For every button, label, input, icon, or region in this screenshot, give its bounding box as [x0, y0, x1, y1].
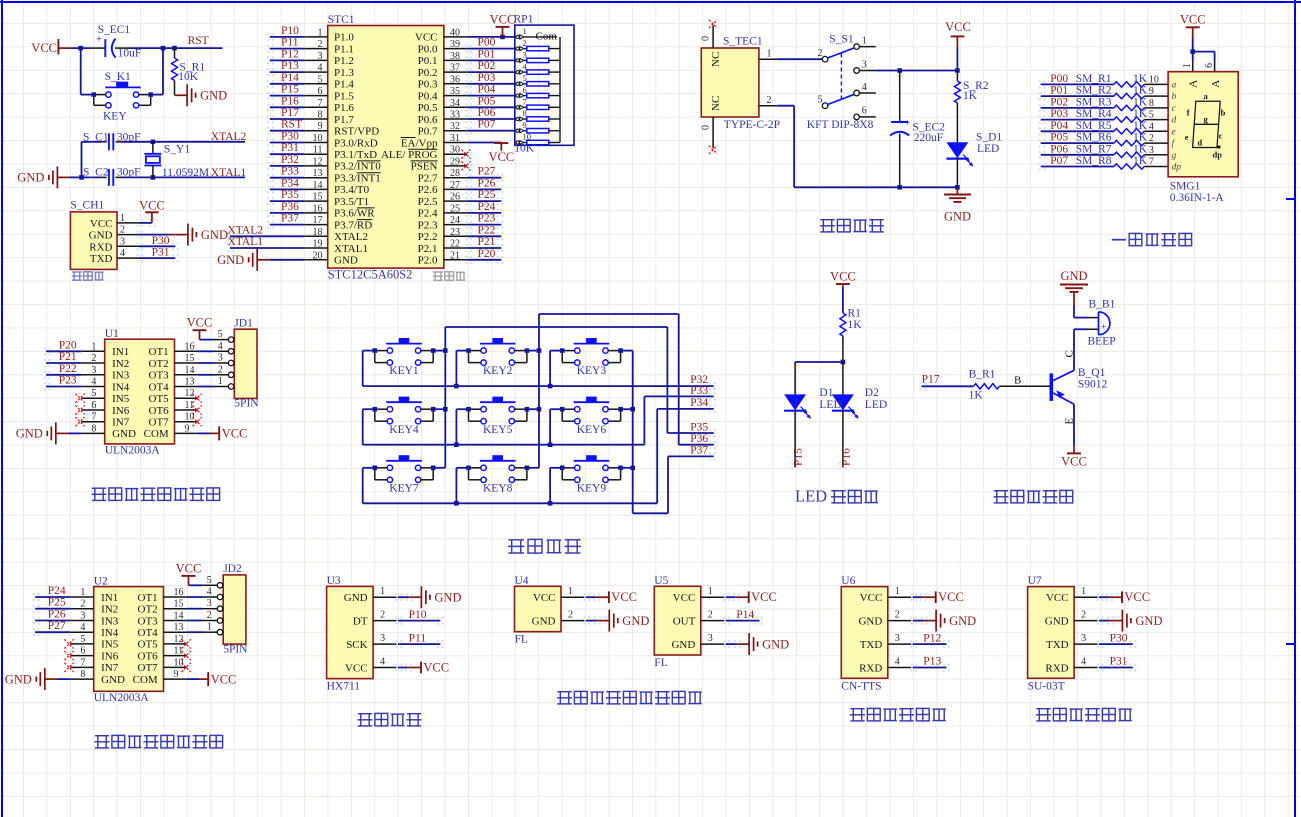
- svg-text:0.36IN-1-A: 0.36IN-1-A: [1170, 192, 1225, 204]
- svg-text:P2.5: P2.5: [418, 196, 438, 208]
- svg-text:5: 5: [318, 74, 323, 85]
- svg-text:dp: dp: [1213, 150, 1223, 160]
- svg-text:PSEN: PSEN: [411, 161, 438, 173]
- svg-text:3: 3: [91, 365, 96, 376]
- svg-text:OT5: OT5: [138, 639, 159, 651]
- svg-text:P0.5: P0.5: [418, 102, 438, 114]
- svg-text:29: 29: [450, 156, 460, 167]
- svg-text:2: 2: [120, 225, 125, 236]
- svg-text:d: d: [1172, 116, 1177, 126]
- svg-text:P07: P07: [478, 119, 496, 131]
- svg-text:VCC: VCC: [611, 590, 637, 604]
- svg-text:VCC: VCC: [31, 41, 57, 55]
- svg-text:VCC: VCC: [1124, 590, 1150, 604]
- svg-text:P35: P35: [281, 189, 299, 201]
- svg-text:21: 21: [450, 250, 460, 261]
- svg-text:P11: P11: [409, 632, 427, 644]
- svg-text:P20: P20: [59, 339, 77, 351]
- svg-text:P26: P26: [48, 609, 66, 621]
- svg-text:6: 6: [1204, 63, 1215, 68]
- svg-text:IN7: IN7: [101, 662, 119, 674]
- svg-text:SM_R8: SM_R8: [1076, 155, 1112, 167]
- svg-text:SM_R1: SM_R1: [1076, 73, 1112, 85]
- svg-text:28: 28: [450, 168, 460, 179]
- svg-text:P14: P14: [736, 609, 754, 621]
- svg-text:S_Y1: S_Y1: [164, 144, 190, 156]
- svg-text:P24: P24: [48, 585, 66, 597]
- svg-text:11.0592M: 11.0592M: [162, 167, 209, 179]
- svg-text:16: 16: [185, 341, 195, 352]
- svg-text:P2.3: P2.3: [418, 219, 438, 231]
- svg-text:6: 6: [80, 646, 85, 657]
- svg-text:STC12C5A60S2: STC12C5A60S2: [328, 267, 413, 281]
- svg-text:IN4: IN4: [101, 627, 119, 639]
- svg-text:VCC: VCC: [488, 150, 514, 164]
- svg-text:P14: P14: [281, 72, 299, 84]
- svg-text:VCC: VCC: [345, 663, 368, 675]
- svg-text:P30: P30: [281, 131, 299, 143]
- svg-text:P34: P34: [281, 177, 299, 189]
- svg-text:P2.6: P2.6: [418, 184, 438, 196]
- svg-text:3: 3: [80, 611, 85, 622]
- svg-text:15: 15: [313, 192, 323, 203]
- svg-text:P27: P27: [48, 620, 66, 632]
- svg-text:S_S1: S_S1: [829, 33, 854, 45]
- svg-text:16: 16: [174, 587, 184, 598]
- svg-text:P21: P21: [478, 236, 496, 248]
- svg-text:d: d: [1198, 138, 1203, 148]
- svg-text:14: 14: [174, 611, 184, 622]
- svg-text:OT3: OT3: [149, 370, 170, 382]
- svg-text:5: 5: [818, 95, 823, 106]
- svg-text:VCC: VCC: [222, 427, 248, 441]
- svg-text:P04: P04: [1050, 120, 1068, 132]
- svg-text:15: 15: [174, 599, 184, 610]
- svg-text:P33: P33: [690, 385, 708, 397]
- svg-text:S_C2: S_C2: [83, 167, 109, 179]
- svg-text:32: 32: [450, 121, 460, 132]
- svg-text:LED: LED: [819, 399, 841, 411]
- svg-text:GND: GND: [16, 427, 43, 441]
- svg-text:P34: P34: [690, 397, 708, 409]
- svg-text:KEY7: KEY7: [389, 482, 419, 494]
- svg-text:13: 13: [313, 168, 323, 179]
- svg-text:g: g: [1172, 151, 1177, 161]
- svg-text:KEY5: KEY5: [483, 424, 513, 436]
- svg-text:P37: P37: [690, 445, 708, 457]
- svg-text:6: 6: [91, 400, 96, 411]
- svg-text:30pF: 30pF: [117, 131, 141, 143]
- svg-text:P01: P01: [478, 48, 496, 60]
- svg-text:14: 14: [313, 180, 323, 191]
- svg-text:+: +: [904, 118, 910, 129]
- svg-text:2: 2: [895, 610, 900, 621]
- svg-text:SM_R6: SM_R6: [1076, 132, 1112, 144]
- svg-text:KEY8: KEY8: [483, 482, 513, 494]
- svg-text:OT4: OT4: [138, 627, 159, 639]
- svg-text:P0.2: P0.2: [418, 67, 438, 79]
- svg-text:SM_R5: SM_R5: [1076, 120, 1112, 132]
- svg-text:2: 2: [1081, 610, 1086, 621]
- svg-text:GND: GND: [1060, 269, 1087, 283]
- svg-text:16: 16: [313, 203, 323, 214]
- svg-text:GND: GND: [434, 590, 461, 604]
- svg-text:P06: P06: [1050, 143, 1068, 155]
- svg-text:1: 1: [218, 376, 223, 387]
- svg-text:VCC: VCC: [533, 592, 556, 604]
- svg-text:OT2: OT2: [138, 604, 158, 616]
- svg-text:1: 1: [380, 586, 385, 597]
- svg-text:P2.7: P2.7: [418, 173, 438, 185]
- svg-text:GND: GND: [671, 639, 695, 651]
- svg-text:IN5: IN5: [112, 393, 130, 405]
- svg-text:P3.0/RxD: P3.0/RxD: [334, 137, 378, 149]
- svg-text:TXD: TXD: [860, 639, 883, 651]
- svg-text:1K: 1K: [963, 90, 978, 102]
- svg-text:S_C1: S_C1: [83, 131, 109, 143]
- svg-text:P24: P24: [478, 201, 496, 213]
- svg-text:GND: GND: [5, 672, 32, 686]
- svg-text:13: 13: [185, 377, 195, 388]
- svg-text:39: 39: [450, 39, 460, 50]
- svg-text:dp: dp: [1172, 163, 1182, 173]
- svg-text:14: 14: [185, 365, 195, 376]
- svg-text:S_D1: S_D1: [976, 131, 1002, 143]
- svg-text:3: 3: [862, 59, 867, 70]
- svg-text:P16: P16: [840, 448, 852, 466]
- svg-text:2: 2: [818, 48, 823, 59]
- svg-text:P3.7/RD: P3.7/RD: [334, 219, 372, 231]
- svg-text:VCC: VCC: [1180, 12, 1206, 26]
- svg-text:VCC: VCC: [211, 672, 237, 686]
- svg-text:P3.6/WR: P3.6/WR: [334, 208, 375, 220]
- svg-text:26: 26: [450, 192, 460, 203]
- svg-text:3: 3: [207, 598, 212, 609]
- svg-text:OT5: OT5: [149, 393, 170, 405]
- svg-text:B_R1: B_R1: [969, 368, 996, 380]
- svg-text:ULN2003A: ULN2003A: [105, 445, 161, 457]
- svg-text:P30: P30: [1110, 632, 1128, 644]
- svg-text:1K: 1K: [848, 319, 863, 331]
- svg-text:2: 2: [708, 610, 713, 621]
- svg-text:XTAL2: XTAL2: [334, 231, 368, 243]
- svg-text:1K: 1K: [1133, 85, 1148, 97]
- svg-text:4: 4: [91, 377, 96, 388]
- svg-text:7: 7: [80, 657, 85, 668]
- svg-text:1K: 1K: [1133, 155, 1148, 167]
- svg-text:6: 6: [862, 106, 867, 117]
- svg-text:BEEP: BEEP: [1088, 335, 1116, 347]
- svg-text:IN6: IN6: [112, 405, 130, 417]
- svg-text:OT2: OT2: [149, 358, 169, 370]
- svg-text:STC1: STC1: [328, 14, 355, 26]
- svg-text:2: 2: [207, 610, 212, 621]
- svg-text:VCC: VCC: [415, 32, 438, 44]
- svg-text:IN4: IN4: [112, 381, 130, 393]
- svg-text:1: 1: [80, 587, 85, 598]
- svg-text:P37: P37: [281, 213, 299, 225]
- svg-text:7: 7: [318, 98, 323, 109]
- svg-text:GND: GND: [1045, 616, 1069, 628]
- svg-text:U2: U2: [94, 575, 108, 587]
- svg-text:0: 0: [701, 36, 712, 41]
- svg-text:36: 36: [450, 74, 460, 85]
- svg-text:a: a: [1172, 80, 1177, 90]
- svg-text:15: 15: [185, 353, 195, 364]
- svg-text:OT6: OT6: [149, 405, 170, 417]
- svg-text:2: 2: [568, 610, 573, 621]
- svg-text:31: 31: [450, 133, 460, 144]
- svg-text:P03: P03: [1050, 108, 1068, 120]
- svg-text:3: 3: [318, 51, 323, 62]
- svg-text:37: 37: [450, 63, 460, 74]
- svg-text:FL: FL: [654, 657, 667, 669]
- svg-text:P2.2: P2.2: [418, 231, 438, 243]
- svg-text:P25: P25: [48, 597, 66, 609]
- svg-text:VCC: VCC: [90, 218, 113, 230]
- svg-text:SM_R7: SM_R7: [1076, 143, 1112, 155]
- svg-text:P26: P26: [478, 177, 496, 189]
- svg-text:1: 1: [767, 49, 772, 60]
- svg-text:VCC: VCC: [1046, 592, 1069, 604]
- svg-text:GND: GND: [944, 209, 971, 223]
- svg-text:10: 10: [1149, 74, 1159, 85]
- svg-text:EA/Vpp: EA/Vpp: [401, 137, 438, 149]
- svg-text:1: 1: [862, 35, 867, 46]
- svg-text:COM: COM: [133, 674, 158, 686]
- svg-text:5: 5: [80, 634, 85, 645]
- svg-text:COM: COM: [144, 428, 169, 440]
- svg-text:27: 27: [450, 180, 460, 191]
- svg-text:13: 13: [174, 622, 184, 633]
- svg-text:P06: P06: [478, 107, 496, 119]
- svg-text:8: 8: [1149, 98, 1154, 109]
- svg-text:P2.1: P2.1: [418, 243, 438, 255]
- svg-text:e: e: [1185, 132, 1189, 142]
- svg-text:P0.4: P0.4: [418, 90, 438, 102]
- svg-text:8: 8: [91, 423, 96, 434]
- svg-text:2: 2: [80, 599, 85, 610]
- svg-text:GND: GND: [949, 614, 976, 628]
- svg-text:24: 24: [450, 215, 460, 226]
- svg-text:S_CH1: S_CH1: [70, 200, 104, 212]
- svg-text:3: 3: [708, 633, 713, 644]
- svg-text:D2: D2: [865, 387, 879, 399]
- svg-text:JD2: JD2: [223, 563, 242, 575]
- svg-text:P35: P35: [690, 421, 708, 433]
- svg-text:1K: 1K: [1133, 96, 1148, 108]
- svg-text:10K: 10K: [178, 71, 199, 83]
- svg-text:OT4: OT4: [149, 381, 170, 393]
- svg-text:IN3: IN3: [101, 615, 119, 627]
- svg-text:9: 9: [318, 121, 323, 132]
- svg-text:20: 20: [313, 250, 323, 261]
- svg-text:XTAL2: XTAL2: [228, 224, 264, 236]
- svg-text:19: 19: [313, 239, 323, 250]
- svg-text:GND: GND: [334, 255, 358, 267]
- svg-text:P15: P15: [793, 448, 805, 466]
- svg-text:DT: DT: [353, 616, 368, 628]
- svg-text:GND: GND: [201, 228, 228, 242]
- svg-text:3: 3: [1149, 145, 1154, 156]
- svg-text:VCC: VCC: [176, 561, 202, 575]
- svg-text:U4: U4: [515, 575, 529, 587]
- svg-text:1: 1: [91, 341, 96, 352]
- svg-text:P32: P32: [281, 154, 299, 166]
- svg-text:P13: P13: [923, 656, 941, 668]
- svg-text:TYPE-C-2P: TYPE-C-2P: [724, 119, 780, 131]
- svg-text:4: 4: [380, 657, 385, 668]
- svg-text:C: C: [1064, 350, 1076, 357]
- svg-text:2: 2: [767, 95, 772, 106]
- svg-text:3: 3: [120, 236, 125, 247]
- svg-text:TXD: TXD: [1046, 639, 1069, 651]
- svg-text:25: 25: [450, 203, 460, 214]
- svg-text:P15: P15: [281, 84, 299, 96]
- svg-text:P04: P04: [478, 84, 496, 96]
- svg-text:IN6: IN6: [101, 650, 119, 662]
- svg-text:OT1: OT1: [138, 592, 158, 604]
- svg-text:IN1: IN1: [112, 346, 129, 358]
- svg-text:P00: P00: [1050, 73, 1068, 85]
- svg-text:P20: P20: [478, 248, 496, 260]
- svg-text:A: A: [1210, 80, 1222, 88]
- svg-text:3: 3: [1081, 633, 1086, 644]
- svg-text:OT1: OT1: [149, 346, 169, 358]
- svg-text:34: 34: [450, 98, 460, 109]
- svg-text:4: 4: [1149, 121, 1154, 132]
- svg-text:P3.2/INT0: P3.2/INT0: [334, 161, 381, 173]
- svg-text:b: b: [1221, 108, 1226, 118]
- svg-text:+: +: [1101, 323, 1106, 333]
- svg-text:30pF: 30pF: [117, 167, 141, 179]
- svg-text:P00: P00: [478, 37, 496, 49]
- svg-text:KFT DIP-8X8: KFT DIP-8X8: [807, 119, 874, 131]
- svg-text:e: e: [1172, 127, 1176, 137]
- svg-text:ULN2003A: ULN2003A: [94, 692, 150, 704]
- svg-text:P31: P31: [152, 247, 170, 259]
- svg-text:XTAL1: XTAL1: [334, 243, 368, 255]
- svg-text:P16: P16: [281, 95, 299, 107]
- svg-text:23: 23: [450, 227, 460, 238]
- svg-text:P25: P25: [478, 189, 496, 201]
- svg-text:P23: P23: [478, 213, 496, 225]
- svg-text:LED: LED: [795, 487, 827, 506]
- svg-text:P21: P21: [59, 351, 77, 363]
- svg-text:1: 1: [1182, 63, 1193, 68]
- svg-text:12: 12: [313, 156, 323, 167]
- svg-text:P05: P05: [478, 95, 496, 107]
- svg-text:GND: GND: [1135, 614, 1162, 628]
- svg-text:GND: GND: [622, 614, 649, 628]
- svg-text:IN2: IN2: [112, 358, 129, 370]
- svg-text:33: 33: [450, 110, 460, 121]
- svg-text:P3.3/INT1: P3.3/INT1: [334, 173, 381, 185]
- svg-text:6: 6: [318, 86, 323, 97]
- svg-text:P0.7: P0.7: [418, 126, 438, 138]
- svg-text:VCC: VCC: [673, 592, 696, 604]
- svg-text:KEY9: KEY9: [577, 482, 607, 494]
- svg-text:S_K1: S_K1: [105, 71, 131, 83]
- svg-text:1K: 1K: [1133, 120, 1148, 132]
- svg-text:5PIN: 5PIN: [234, 398, 259, 410]
- svg-text:U3: U3: [327, 575, 341, 587]
- svg-text:RXD: RXD: [89, 241, 112, 253]
- svg-text:P33: P33: [281, 166, 299, 178]
- svg-text:3: 3: [895, 633, 900, 644]
- svg-text:TXD: TXD: [90, 253, 113, 265]
- svg-text:9: 9: [1149, 86, 1154, 97]
- svg-text:5PIN: 5PIN: [223, 643, 248, 655]
- svg-text:OT3: OT3: [138, 615, 159, 627]
- svg-text:P1.5: P1.5: [334, 90, 354, 102]
- svg-text:4: 4: [318, 63, 323, 74]
- svg-text:IN2: IN2: [101, 604, 118, 616]
- svg-text:3: 3: [218, 353, 223, 364]
- svg-text:1: 1: [120, 213, 125, 224]
- svg-text:P1.0: P1.0: [334, 32, 354, 44]
- svg-text:35: 35: [450, 86, 460, 97]
- svg-text:P10: P10: [409, 609, 427, 621]
- svg-text:XTAL2: XTAL2: [211, 131, 247, 143]
- svg-text:B_B1: B_B1: [1089, 299, 1116, 311]
- svg-text:P0.1: P0.1: [418, 55, 438, 67]
- svg-text:VCC: VCC: [860, 592, 883, 604]
- svg-text:5: 5: [207, 575, 212, 586]
- svg-text:U6: U6: [841, 575, 855, 587]
- svg-text:1K: 1K: [1133, 143, 1148, 155]
- svg-text:10: 10: [313, 133, 323, 144]
- svg-text:KEY2: KEY2: [483, 365, 513, 377]
- svg-text:P1.3: P1.3: [334, 67, 354, 79]
- svg-text:1K: 1K: [1133, 132, 1148, 144]
- svg-text:1: 1: [895, 586, 900, 597]
- svg-text:1: 1: [523, 26, 527, 36]
- svg-text:P22: P22: [59, 363, 77, 375]
- svg-text:IN1: IN1: [101, 592, 118, 604]
- svg-text:4: 4: [1081, 657, 1086, 668]
- svg-text:P36: P36: [690, 433, 708, 445]
- svg-text:VCC: VCC: [423, 661, 449, 675]
- svg-text:17: 17: [313, 215, 323, 226]
- svg-text:P11: P11: [281, 37, 299, 49]
- svg-text:LED: LED: [977, 143, 999, 155]
- svg-text:P17: P17: [922, 374, 940, 386]
- svg-text:OT6: OT6: [138, 650, 159, 662]
- svg-text:P3.1/TxD: P3.1/TxD: [334, 149, 377, 161]
- svg-text:NC: NC: [710, 52, 722, 67]
- svg-text:ALE/ PROG: ALE/ PROG: [381, 149, 438, 161]
- svg-text:XTAL1: XTAL1: [228, 236, 264, 248]
- svg-text:S_EC1: S_EC1: [98, 24, 131, 36]
- svg-text:1K: 1K: [969, 390, 984, 402]
- svg-text:GND: GND: [532, 616, 556, 628]
- svg-text:P1.2: P1.2: [334, 55, 354, 67]
- svg-text:2: 2: [91, 353, 96, 364]
- svg-text:2: 2: [218, 364, 223, 375]
- svg-text:E: E: [1064, 418, 1076, 425]
- svg-text:4: 4: [80, 622, 85, 633]
- svg-text:P10: P10: [281, 25, 299, 37]
- svg-text:IN5: IN5: [101, 639, 119, 651]
- svg-text:P23: P23: [59, 375, 77, 387]
- svg-text:4: 4: [862, 82, 867, 93]
- svg-text:KEY3: KEY3: [577, 365, 607, 377]
- svg-text:3: 3: [380, 633, 385, 644]
- svg-text:7: 7: [91, 412, 96, 423]
- svg-text:RXD: RXD: [1045, 663, 1068, 675]
- svg-text:SM_R3: SM_R3: [1076, 96, 1112, 108]
